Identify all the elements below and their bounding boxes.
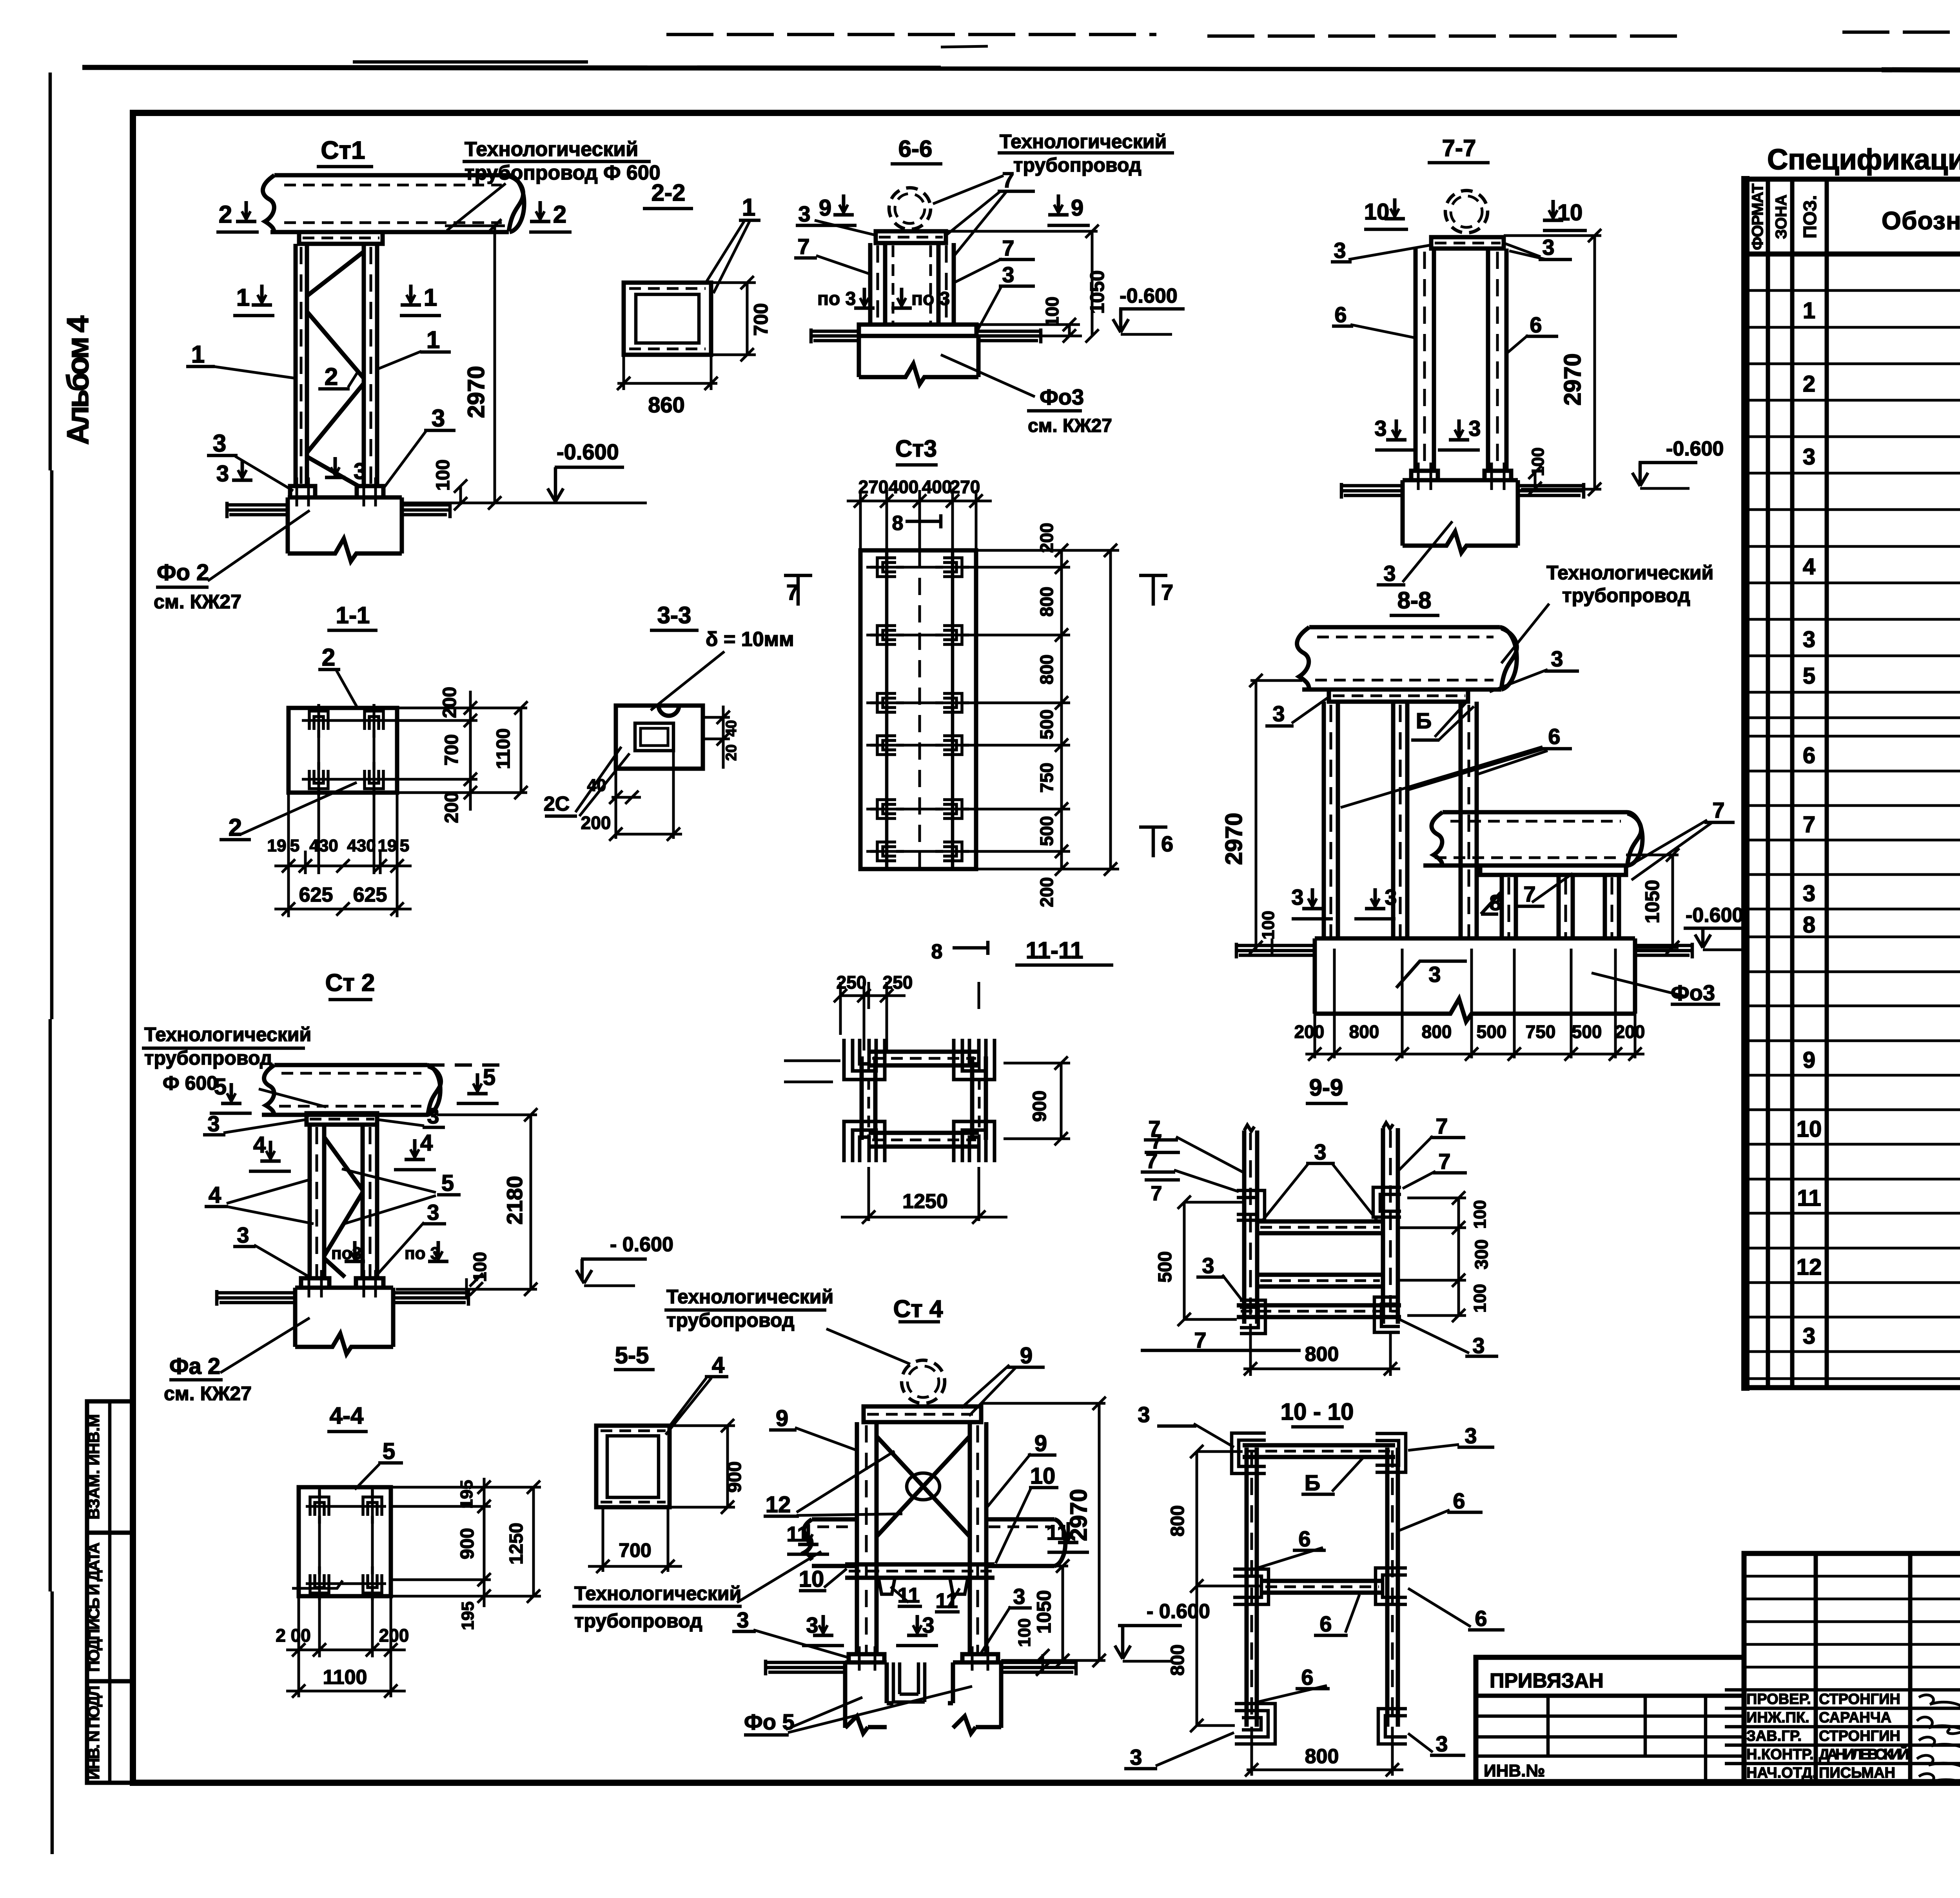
svg-text:ДАНИЛЕВСКИЙ: ДАНИЛЕВСКИЙ [1819, 1745, 1909, 1763]
svg-text:800: 800 [1167, 1505, 1188, 1537]
svg-text:9: 9 [1071, 195, 1083, 221]
svg-text:800: 800 [1422, 1022, 1452, 1042]
svg-text:200: 200 [439, 687, 460, 718]
svg-text:ПРИВЯЗАН: ПРИВЯЗАН [1490, 1669, 1604, 1692]
svg-text:11-11: 11-11 [1026, 937, 1083, 964]
svg-text:Ст1: Ст1 [321, 136, 365, 164]
svg-text:3: 3 [1130, 1745, 1142, 1769]
svg-text:20: 20 [723, 744, 740, 761]
svg-text:Технологический: Технологический [574, 1582, 741, 1604]
svg-text:700: 700 [750, 303, 772, 336]
svg-text:Фо3: Фо3 [1671, 980, 1715, 1005]
svg-text:3: 3 [1314, 1140, 1326, 1164]
svg-text:ВЗАМ. ИНВ.М: ВЗАМ. ИНВ.М [85, 1414, 103, 1520]
svg-text:2970: 2970 [1065, 1489, 1092, 1541]
svg-text:3: 3 [1428, 962, 1441, 987]
svg-text:800: 800 [1305, 1343, 1339, 1366]
svg-text:трубопровод Ф 600: трубопровод Ф 600 [465, 161, 661, 184]
svg-text:ИНЖ.ПК.: ИНЖ.ПК. [1746, 1709, 1809, 1726]
svg-text:5: 5 [214, 1074, 227, 1100]
svg-text:100: 100 [1042, 297, 1062, 327]
svg-text:2: 2 [219, 201, 232, 228]
svg-text:6: 6 [1803, 743, 1815, 768]
svg-text:ЗОНА: ЗОНА [1773, 194, 1790, 239]
svg-text:400: 400 [922, 477, 952, 497]
svg-text:-0.600: -0.600 [1686, 904, 1743, 927]
svg-text:1100: 1100 [323, 1666, 367, 1689]
svg-text:6: 6 [1161, 831, 1173, 856]
svg-text:Технологический: Технологический [1546, 562, 1713, 584]
svg-text:3: 3 [1436, 1731, 1448, 1756]
svg-text:Ст 2: Ст 2 [325, 969, 375, 996]
svg-text:1250: 1250 [902, 1190, 948, 1213]
svg-text:100: 100 [1470, 1200, 1490, 1228]
svg-text:ИНВ. N ПОДЛ: ИНВ. N ПОДЛ [85, 1686, 103, 1780]
svg-text:430: 430 [309, 836, 338, 855]
svg-text:-0.600: -0.600 [1666, 437, 1724, 460]
svg-text:Н.КОНТР.: Н.КОНТР. [1746, 1746, 1814, 1763]
svg-text:5: 5 [1803, 663, 1815, 689]
svg-text:Фо3: Фо3 [1040, 385, 1084, 409]
svg-text:3: 3 [427, 1103, 439, 1128]
svg-text:7: 7 [1803, 812, 1815, 837]
svg-text:7: 7 [1002, 236, 1014, 260]
svg-text:δ = 10мм: δ = 10мм [706, 628, 794, 651]
svg-text:750: 750 [1526, 1022, 1556, 1042]
svg-text:8: 8 [892, 512, 904, 535]
svg-text:4: 4 [712, 1352, 724, 1378]
svg-text:3: 3 [216, 461, 229, 486]
svg-text:8: 8 [931, 940, 943, 963]
svg-text:- 0.600: - 0.600 [610, 1233, 673, 1256]
svg-text:3: 3 [237, 1223, 249, 1247]
svg-text:500: 500 [1155, 1251, 1176, 1283]
svg-text:900: 900 [457, 1528, 478, 1559]
svg-text:3: 3 [1468, 416, 1481, 441]
svg-text:300: 300 [1471, 1239, 1492, 1270]
svg-text:2: 2 [229, 814, 242, 841]
svg-text:Технологический: Технологический [1000, 131, 1167, 152]
svg-text:2С: 2С [544, 793, 570, 815]
svg-text:ПРОВЕР.: ПРОВЕР. [1746, 1691, 1811, 1707]
svg-text:800: 800 [1349, 1022, 1379, 1042]
svg-text:1: 1 [1803, 298, 1815, 323]
svg-text:7: 7 [797, 234, 809, 259]
svg-text:Б: Б [1305, 1470, 1320, 1495]
svg-text:11: 11 [1797, 1185, 1821, 1211]
svg-text:7: 7 [1436, 1114, 1448, 1138]
svg-text:6-6: 6-6 [898, 136, 933, 162]
svg-text:200: 200 [441, 792, 462, 823]
svg-text:Технологический: Технологический [465, 138, 638, 161]
svg-text:7: 7 [1712, 798, 1724, 822]
svg-text:3: 3 [1202, 1253, 1214, 1278]
svg-text:7: 7 [1161, 580, 1173, 604]
svg-text:ФОРМАТ: ФОРМАТ [1749, 183, 1766, 250]
svg-text:7: 7 [1523, 882, 1535, 906]
svg-text:100: 100 [1528, 447, 1548, 476]
svg-text:195: 195 [457, 1480, 476, 1508]
svg-text:100: 100 [1015, 1618, 1034, 1647]
svg-text:8: 8 [1803, 912, 1815, 938]
svg-text:8: 8 [1489, 890, 1501, 915]
svg-text:40: 40 [723, 720, 740, 737]
svg-text:9: 9 [776, 1406, 788, 1431]
svg-text:200: 200 [1615, 1022, 1645, 1042]
svg-text:по 3: по 3 [911, 289, 950, 309]
svg-text:900: 900 [1029, 1091, 1050, 1122]
svg-text:Ст 4: Ст 4 [893, 1296, 943, 1323]
svg-text:6: 6 [1530, 312, 1542, 337]
svg-text:750: 750 [1036, 763, 1057, 793]
svg-text:трубопровод: трубопровод [144, 1047, 272, 1069]
svg-text:4: 4 [420, 1130, 433, 1156]
svg-text:Б: Б [1416, 708, 1432, 733]
svg-text:400: 400 [889, 477, 919, 497]
svg-text:САРАНЧА: САРАНЧА [1819, 1709, 1891, 1726]
svg-text:3: 3 [1374, 416, 1387, 441]
svg-text:3: 3 [1002, 262, 1014, 287]
svg-text:200: 200 [379, 1625, 409, 1646]
svg-text:- 0.600: - 0.600 [1147, 1600, 1210, 1623]
svg-text:9: 9 [1803, 1047, 1815, 1073]
svg-text:1: 1 [191, 341, 205, 368]
svg-text:Ст3: Ст3 [895, 435, 937, 462]
svg-text:40: 40 [587, 776, 606, 795]
svg-text:Спецификация к металлическим: Спецификация к металлическим опорам Ст1.… [1767, 143, 1960, 176]
svg-text:700: 700 [619, 1539, 651, 1561]
svg-text:Ф 600: Ф 600 [163, 1072, 218, 1094]
svg-text:6: 6 [1298, 1526, 1310, 1551]
svg-text:3-3: 3-3 [657, 602, 691, 628]
svg-text:6: 6 [1475, 1606, 1487, 1631]
svg-text:625: 625 [353, 884, 387, 906]
svg-text:1050: 1050 [1033, 1590, 1055, 1633]
svg-text:10: 10 [1797, 1116, 1822, 1142]
svg-text:6: 6 [1319, 1611, 1332, 1636]
svg-text:ПОЗ.: ПОЗ. [1800, 195, 1820, 238]
svg-text:800: 800 [1305, 1745, 1339, 1768]
svg-text:860: 860 [648, 392, 684, 417]
svg-text:3: 3 [1013, 1584, 1025, 1609]
svg-text:1: 1 [426, 327, 440, 354]
svg-text:2180: 2180 [502, 1176, 527, 1225]
svg-text:3: 3 [1551, 646, 1563, 671]
svg-text:ПИСЬМАН: ПИСЬМАН [1819, 1765, 1895, 1781]
svg-text:2: 2 [1803, 371, 1815, 397]
svg-text:9: 9 [1020, 1343, 1033, 1368]
svg-text:2970: 2970 [1221, 813, 1247, 865]
svg-text:10: 10 [1030, 1463, 1056, 1489]
svg-text:3: 3 [922, 1613, 934, 1637]
svg-text:-0.600: -0.600 [1120, 285, 1177, 307]
svg-text:195: 195 [458, 1601, 477, 1630]
svg-text:ИНВ.№: ИНВ.№ [1484, 1761, 1545, 1780]
svg-text:200: 200 [1294, 1022, 1325, 1042]
svg-text:4: 4 [209, 1182, 221, 1208]
svg-text:3: 3 [1803, 881, 1815, 906]
svg-text:800: 800 [1167, 1644, 1188, 1676]
svg-text:1-1: 1-1 [336, 602, 370, 628]
svg-text:2 00: 2 00 [276, 1625, 311, 1646]
svg-text:Обозначение: Обозначение [1882, 207, 1960, 235]
svg-text:3: 3 [1383, 561, 1396, 586]
svg-text:3: 3 [806, 1613, 818, 1637]
svg-text:500: 500 [1036, 709, 1057, 740]
svg-text:250: 250 [883, 972, 913, 993]
svg-text:Технологический: Технологический [666, 1286, 833, 1308]
svg-text:6: 6 [1548, 724, 1560, 749]
svg-text:3: 3 [213, 430, 226, 457]
svg-text:800: 800 [1036, 587, 1057, 617]
svg-text:200: 200 [1036, 523, 1057, 553]
svg-text:трубопровод: трубопровод [1013, 154, 1142, 176]
svg-text:10: 10 [799, 1566, 824, 1592]
svg-text:7: 7 [1151, 1130, 1162, 1153]
svg-text:см. КЖ27: см. КЖ27 [1028, 416, 1112, 436]
svg-text:19: 19 [378, 836, 397, 855]
svg-text:1100: 1100 [493, 728, 514, 769]
svg-text:Альбом 4: Альбом 4 [60, 316, 95, 445]
svg-text:12: 12 [766, 1492, 791, 1517]
svg-text:11: 11 [786, 1522, 809, 1546]
svg-text:Фо 2: Фо 2 [157, 560, 209, 585]
svg-text:430: 430 [347, 836, 376, 855]
svg-text:2: 2 [553, 201, 566, 228]
svg-text:4: 4 [1803, 554, 1815, 579]
svg-text:9: 9 [819, 195, 831, 221]
svg-text:3: 3 [737, 1608, 749, 1632]
svg-text:6: 6 [1301, 1665, 1313, 1689]
svg-text:3: 3 [427, 1200, 439, 1225]
svg-text:по3: по3 [331, 1244, 362, 1263]
svg-text:1050: 1050 [1086, 270, 1108, 314]
svg-text:3: 3 [207, 1111, 220, 1136]
svg-text:2: 2 [325, 363, 338, 390]
svg-text:НАЧ.ОТД.: НАЧ.ОТД. [1746, 1765, 1817, 1781]
svg-text:270: 270 [950, 477, 980, 497]
svg-text:Фа 2: Фа 2 [169, 1354, 220, 1379]
svg-text:1: 1 [236, 284, 250, 311]
svg-text:500: 500 [1572, 1022, 1602, 1042]
svg-text:11: 11 [935, 1589, 958, 1613]
svg-text:3: 3 [1272, 701, 1285, 726]
svg-text:4: 4 [253, 1132, 266, 1158]
svg-text:3: 3 [432, 405, 445, 432]
svg-text:7-7: 7-7 [1442, 135, 1476, 161]
svg-text:СТРОНГИН: СТРОНГИН [1819, 1728, 1900, 1744]
svg-text:500: 500 [1477, 1022, 1507, 1042]
svg-text:1250: 1250 [506, 1523, 527, 1565]
svg-text:Технологический: Технологический [144, 1023, 311, 1045]
svg-text:1050: 1050 [1641, 880, 1663, 923]
svg-text:4-4: 4-4 [330, 1403, 364, 1429]
svg-text:трубопровод: трубопровод [574, 1610, 702, 1632]
svg-text:5: 5 [290, 836, 299, 855]
svg-text:7: 7 [1438, 1149, 1450, 1174]
svg-text:3: 3 [354, 459, 366, 484]
svg-text:трубопровод: трубопровод [1562, 584, 1690, 606]
svg-text:3: 3 [1465, 1423, 1477, 1448]
svg-text:по 3: по 3 [817, 289, 856, 309]
svg-text:2970: 2970 [463, 366, 489, 418]
svg-text:100: 100 [433, 459, 454, 491]
svg-text:ЗАВ.ГР.: ЗАВ.ГР. [1746, 1728, 1802, 1744]
svg-text:900: 900 [724, 1461, 745, 1493]
svg-text:11: 11 [897, 1584, 920, 1607]
svg-text:трубопровод: трубопровод [666, 1309, 795, 1331]
svg-text:СТРОНГИН: СТРОНГИН [1819, 1691, 1900, 1707]
svg-text:5: 5 [483, 1065, 495, 1090]
svg-text:3: 3 [1138, 1402, 1150, 1427]
svg-text:7: 7 [786, 580, 799, 604]
svg-text:9-9: 9-9 [1309, 1074, 1343, 1101]
svg-text:1: 1 [742, 194, 755, 221]
svg-text:8-8: 8-8 [1397, 587, 1432, 613]
svg-text:800: 800 [1036, 655, 1057, 685]
svg-text:10: 10 [1557, 200, 1583, 225]
svg-text:100: 100 [1259, 911, 1278, 939]
svg-text:9: 9 [1034, 1431, 1047, 1456]
svg-text:3: 3 [1803, 444, 1815, 470]
svg-text:2: 2 [322, 644, 335, 671]
svg-text:270: 270 [858, 477, 889, 497]
svg-text:100: 100 [1470, 1284, 1490, 1312]
svg-text:12: 12 [1797, 1254, 1822, 1280]
svg-text:см. КЖ27: см. КЖ27 [164, 1383, 252, 1404]
svg-text:3: 3 [1472, 1333, 1485, 1358]
svg-text:3: 3 [1385, 885, 1397, 909]
svg-text:700: 700 [441, 734, 462, 766]
svg-text:-0.600: -0.600 [557, 439, 619, 464]
svg-text:10 - 10: 10 - 10 [1281, 1399, 1354, 1425]
svg-text:10: 10 [1364, 199, 1390, 225]
svg-text:7: 7 [1194, 1328, 1206, 1352]
svg-text:200: 200 [581, 813, 611, 833]
svg-text:7: 7 [1151, 1182, 1162, 1205]
svg-text:3: 3 [1803, 1323, 1815, 1349]
svg-text:см. КЖ27: см. КЖ27 [154, 591, 241, 613]
svg-text:6: 6 [1453, 1488, 1465, 1513]
svg-text:7: 7 [1002, 167, 1014, 192]
svg-text:500: 500 [1036, 816, 1057, 846]
svg-text:3: 3 [798, 201, 810, 226]
svg-text:100: 100 [470, 1252, 490, 1282]
svg-text:3: 3 [1291, 885, 1303, 909]
svg-text:2970: 2970 [1559, 353, 1586, 405]
svg-text:5: 5 [400, 836, 409, 855]
svg-text:200: 200 [1036, 877, 1057, 907]
svg-text:3: 3 [1542, 235, 1554, 259]
svg-text:6: 6 [1334, 302, 1347, 327]
svg-text:1: 1 [424, 284, 437, 311]
svg-text:19: 19 [267, 836, 287, 855]
svg-text:3: 3 [1803, 627, 1815, 652]
svg-text:5: 5 [441, 1170, 454, 1196]
svg-text:по 3: по 3 [405, 1244, 440, 1263]
svg-text:3: 3 [1334, 238, 1346, 263]
svg-text:625: 625 [299, 884, 333, 906]
svg-text:5-5: 5-5 [615, 1342, 649, 1368]
svg-text:250: 250 [837, 972, 867, 993]
svg-text:Фо 5: Фо 5 [744, 1709, 795, 1734]
svg-text:5: 5 [383, 1439, 395, 1464]
svg-text:ПОДПИСЬ И ДАТА: ПОДПИСЬ И ДАТА [85, 1542, 103, 1672]
svg-text:2-2: 2-2 [652, 180, 686, 206]
